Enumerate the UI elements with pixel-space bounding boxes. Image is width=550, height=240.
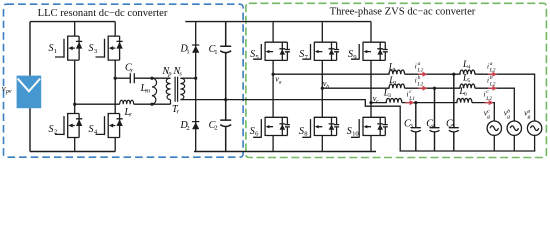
wire: S10 source — [370, 136, 372, 152]
inductor Lr — [120, 100, 134, 104]
ac source v_g^b — [507, 121, 521, 151]
svg-text:r: r — [129, 112, 132, 119]
wire: lower tank wire to Lr — [75, 103, 120, 105]
transformer core — [175, 77, 178, 102]
wire: Cr to primary top — [134, 77, 170, 79]
capacitor Cr — [130, 73, 134, 83]
mosfet S2 — [55, 113, 82, 138]
svg-text:i: i — [415, 62, 417, 70]
svg-text:1: 1 — [214, 49, 217, 56]
label L4 — [462, 60, 471, 71]
svg-text:S: S — [49, 43, 54, 54]
label C3 — [404, 118, 414, 130]
svg-text:a: a — [418, 61, 421, 67]
svg-text:1: 1 — [186, 48, 189, 55]
svg-text:m: m — [145, 88, 150, 95]
label S2 — [49, 124, 58, 136]
current arrow i_L1^a — [418, 72, 427, 77]
label C2 — [209, 120, 218, 132]
current arrow i_L1^c — [405, 100, 414, 105]
svg-text:i: i — [415, 76, 417, 84]
label i_L2^a — [487, 61, 496, 74]
svg-text:4: 4 — [468, 65, 471, 71]
svg-text:1: 1 — [54, 48, 57, 55]
svg-text:b: b — [490, 75, 493, 81]
svg-text:g: g — [487, 114, 490, 120]
wire: S1 drain — [74, 22, 76, 36]
wire: S2 source — [74, 138, 76, 152]
wire: secondary top lead — [180, 77, 195, 79]
label L3 — [383, 88, 392, 99]
svg-text:i: i — [484, 91, 486, 99]
label S1 — [49, 43, 58, 55]
svg-text:L1: L1 — [417, 82, 424, 88]
ac source v_g^a — [527, 121, 541, 151]
svg-text:S: S — [250, 126, 255, 137]
wire: S8 drain — [321, 88, 323, 117]
label i_L1^b — [415, 75, 424, 88]
node: secondary-diode junction — [194, 77, 197, 80]
mosfet S5 — [253, 42, 290, 61]
node: leg A junction — [73, 103, 76, 106]
svg-text:i: i — [407, 91, 409, 99]
wire: rectifier top rail — [185, 21, 371, 23]
wire: S5 source — [272, 60, 274, 74]
svg-text:2: 2 — [394, 81, 397, 87]
current arrow i_L2^c — [485, 100, 494, 105]
mosfet S4 — [96, 113, 123, 138]
svg-text:a: a — [279, 79, 282, 85]
label D2 — [180, 120, 190, 132]
wire: diode branch vertical — [195, 22, 197, 152]
current arrow i_L2^a — [488, 72, 497, 77]
node v_a junction — [272, 73, 275, 76]
svg-text:i: i — [487, 76, 489, 84]
label L1 — [388, 63, 397, 74]
wire: S4 source — [114, 138, 116, 152]
label C5 — [446, 118, 456, 130]
LLC converter boundary box (blue dashed) — [4, 4, 244, 157]
wire: Lr to primary bottom — [134, 103, 171, 105]
wire: S6 source — [272, 136, 274, 152]
label S7 — [299, 49, 308, 61]
svg-text:5: 5 — [468, 78, 471, 84]
svg-text:g: g — [507, 114, 510, 120]
svg-text:r: r — [177, 109, 180, 116]
svg-text:S: S — [347, 126, 352, 137]
wire: phase c bus with L3 and L6 — [371, 98, 494, 121]
current arrow i_L1^b — [418, 86, 427, 91]
wire: H-bridge bottom rail — [30, 151, 115, 153]
svg-text:Three-phase ZVS dc−ac converte: Three-phase ZVS dc−ac converter — [330, 6, 476, 17]
node: capacitor midpoint junction — [224, 98, 227, 101]
svg-text:L2: L2 — [489, 82, 496, 88]
label S6 — [250, 126, 259, 138]
svg-text:2: 2 — [54, 129, 57, 136]
svg-text:S: S — [250, 49, 255, 60]
svg-text:3: 3 — [388, 93, 391, 99]
wire: S5 drain — [272, 22, 274, 43]
svg-text:b: b — [418, 75, 421, 81]
label L5 — [462, 73, 471, 84]
wire: S7 source — [321, 60, 323, 88]
mosfet S10 — [351, 117, 388, 138]
svg-text:S: S — [348, 49, 353, 60]
label S9 — [348, 49, 357, 61]
capacitor C5 — [449, 74, 459, 151]
label L6 — [459, 87, 468, 98]
mosfet S8 — [302, 117, 339, 138]
label Tr — [172, 104, 180, 116]
label Lr — [124, 107, 133, 119]
svg-text:L2: L2 — [489, 68, 496, 74]
svg-text:p: p — [167, 71, 172, 78]
svg-text:r: r — [130, 67, 133, 74]
wire: neutral wire (secondary bottom to filter neutral) — [180, 100, 535, 151]
svg-text:L1: L1 — [417, 68, 424, 74]
wire: leg A midpoint — [74, 60, 76, 113]
capacitor C4 — [430, 88, 440, 151]
node: Lm top junction — [150, 77, 153, 80]
svg-text:a: a — [490, 61, 493, 67]
wire: dc-link bottom rail — [194, 151, 376, 153]
label v_g^c — [484, 109, 491, 121]
svg-text:L2: L2 — [485, 96, 492, 102]
label v_b — [323, 79, 329, 90]
Three-phase converter boundary box (green dashed) — [246, 3, 547, 157]
diode D2 — [192, 122, 199, 130]
label S4 — [89, 124, 98, 136]
inductor Lm (magnetizing) — [152, 78, 157, 104]
wire: phase a bus with L1 and L4 — [273, 70, 534, 121]
svg-text:pv: pv — [5, 89, 12, 95]
node: C3 junction — [414, 101, 417, 104]
label v_c — [373, 94, 379, 105]
mosfet S1 — [55, 36, 82, 61]
label Ns — [173, 66, 183, 78]
label v_g^b — [504, 109, 511, 121]
capacitor C2 — [220, 100, 231, 152]
ac source v_g^c — [487, 121, 501, 151]
label i_L2^c — [484, 89, 493, 102]
transformer Tr primary winding Np — [166, 78, 170, 104]
node v_b junction — [321, 87, 324, 90]
diode D1 — [192, 45, 199, 53]
wire: PV positive lead — [29, 22, 31, 76]
current arrow i_L2^b — [488, 86, 497, 91]
label i_L2^b — [487, 75, 496, 88]
label v_g^a — [524, 109, 531, 121]
wire: S9 source — [370, 60, 372, 102]
wire: S7 drain — [321, 22, 323, 43]
wire: upper tank wire to Cr — [115, 77, 130, 79]
label Cr — [125, 63, 133, 75]
node: C4 junction — [433, 87, 436, 90]
label L2 — [388, 76, 397, 87]
capacitor C1 — [220, 22, 231, 100]
wire: PV negative lead — [29, 108, 31, 151]
svg-text:LLC resonant dc−dc converter: LLC resonant dc−dc converter — [38, 8, 168, 19]
label i_L1^c — [407, 89, 416, 102]
node: C5 junction — [452, 73, 455, 76]
svg-text:L1: L1 — [408, 96, 415, 102]
label C4 — [426, 118, 436, 130]
svg-text:6: 6 — [464, 92, 467, 98]
label i_L1^a — [415, 61, 424, 74]
svg-text:S: S — [299, 49, 304, 60]
wire: H-bridge top rail — [30, 21, 115, 23]
label S10 — [347, 126, 360, 138]
label Lm — [140, 83, 151, 95]
mosfet S7 — [302, 42, 339, 61]
svg-text:2: 2 — [214, 125, 217, 132]
svg-text:S: S — [89, 43, 94, 54]
wire: S9 drain — [370, 22, 372, 43]
wire: S3 drain — [114, 22, 116, 36]
node: leg B junction — [114, 77, 117, 80]
svg-text:1: 1 — [393, 67, 396, 73]
svg-text:S: S — [89, 124, 94, 135]
transformer Tr secondary winding Ns — [180, 78, 184, 100]
label Np — [162, 66, 173, 78]
svg-text:2: 2 — [186, 125, 189, 132]
wire: S6 drain — [272, 74, 274, 117]
PV panel source v_pv — [17, 76, 42, 109]
svg-text:10: 10 — [352, 131, 359, 138]
capacitor C3 — [411, 103, 421, 151]
wire: leg B midpoint — [114, 60, 116, 113]
label S5 — [250, 49, 259, 61]
label D1 — [180, 44, 190, 56]
mosfet S3 — [96, 36, 123, 61]
node: Lm bottom junction — [150, 103, 153, 106]
wire: phase b bus with L2 and L5 — [322, 84, 514, 121]
svg-text:i: i — [487, 62, 489, 70]
svg-text:S: S — [49, 124, 54, 135]
mosfet S6 — [253, 117, 290, 138]
svg-text:g: g — [528, 114, 531, 120]
label v_a — [275, 75, 281, 86]
label S3 — [89, 43, 98, 55]
wire: S10 drain — [370, 103, 372, 118]
svg-text:s: s — [179, 71, 182, 78]
label S8 — [299, 126, 308, 138]
mosfet S9 — [351, 42, 388, 61]
label v_pv — [2, 83, 12, 95]
wire: S8 source — [321, 136, 323, 152]
svg-text:S: S — [299, 126, 304, 137]
node v_c junction — [369, 101, 372, 104]
label C1 — [209, 44, 218, 56]
svg-text:b: b — [326, 84, 329, 90]
